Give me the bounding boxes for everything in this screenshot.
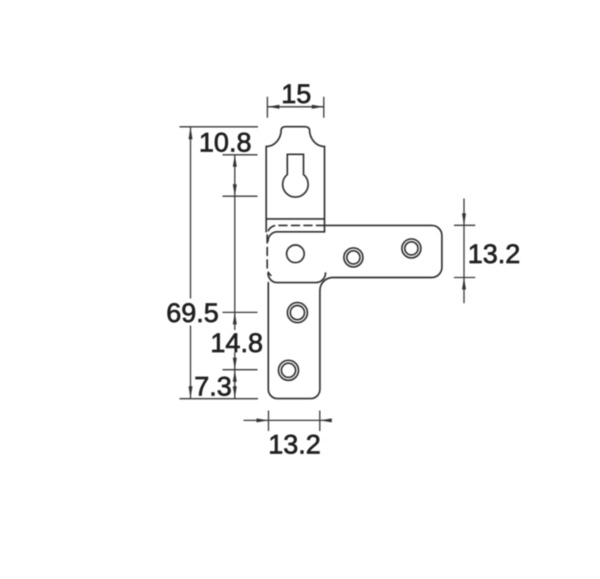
- svg-text:13.2: 13.2: [268, 430, 321, 460]
- arrow 14.8 down: [233, 358, 237, 370]
- left ticks: [223, 155, 258, 370]
- keyhole slot: [283, 154, 309, 197]
- left bottom extension line: [180, 398, 259, 400]
- arrow 13.2 right top: [462, 213, 466, 225]
- arm outline: [320, 225, 442, 290]
- dim 15 line: [267, 106, 323, 108]
- lower hole 2 inner: [281, 363, 295, 377]
- lower hole 1 outer: [287, 303, 307, 323]
- dim 13.2 right ticks: [454, 225, 475, 277]
- junction plate top edge: [268, 232, 325, 241]
- arrow 13.2 right bottom: [462, 278, 466, 290]
- svg-text:15: 15: [281, 79, 311, 109]
- dim 13.2 bottom ticks: [269, 411, 320, 432]
- arm hole right inner: [405, 242, 418, 255]
- fold line: [266, 218, 324, 220]
- junction plate hole: [287, 245, 305, 263]
- lower hole 2 outer: [279, 360, 299, 380]
- arrow 69.5 top: [189, 127, 193, 139]
- arrow 13.2 bottom left: [257, 418, 269, 422]
- junction plate bottom edge: [268, 273, 326, 283]
- arrow 14.8 up: [233, 312, 237, 324]
- svg-text:69.5: 69.5: [166, 298, 219, 328]
- lower hole 1 inner: [290, 306, 304, 320]
- arrow 13.2 bottom right: [320, 418, 332, 422]
- arrow 69.5 bottom: [189, 386, 193, 398]
- dim 13.2 bottom line: [244, 419, 332, 421]
- arrow 10.8 down: [233, 184, 237, 196]
- hidden arm edge (dashed): [267, 225, 324, 275]
- lower strip outline: [268, 283, 320, 399]
- arm hole right outer: [402, 239, 421, 258]
- arm hole middle outer: [344, 248, 363, 267]
- left top extension line: [180, 126, 259, 128]
- svg-text:10.8: 10.8: [199, 128, 252, 158]
- svg-text:7.3: 7.3: [194, 372, 232, 402]
- svg-text:13.2: 13.2: [468, 239, 521, 269]
- arrow 15 left: [267, 105, 279, 109]
- arrow 7.3 down: [233, 386, 237, 398]
- arrow 7.3 up: [233, 370, 237, 382]
- arrow 15 right: [312, 105, 324, 109]
- arrow 10.8 up: [233, 155, 237, 167]
- arm hole middle inner: [347, 251, 360, 264]
- dim 69.5 vertical line: [190, 127, 192, 398]
- svg-text:14.8: 14.8: [210, 328, 263, 358]
- bracket top tab outline: [266, 127, 324, 232]
- dim 15 extension ticks: [267, 97, 323, 118]
- chained dim vertical line: [234, 155, 236, 398]
- dim 13.2 right vertical line: [463, 199, 465, 304]
